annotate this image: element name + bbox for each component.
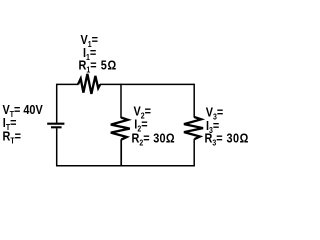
wire left vertical lower	[56, 128, 58, 166]
svg-text:RT=: RT=	[3, 130, 22, 146]
svg-text:R1= 5Ω: R1= 5Ω	[79, 59, 117, 75]
wire right vertical lower	[193, 139, 195, 166]
resistor R2	[111, 118, 130, 140]
wire right vertical upper	[193, 84, 195, 118]
wire top-left segment	[57, 83, 78, 85]
battery VT long plate	[47, 123, 64, 125]
wire bottom	[56, 165, 195, 167]
svg-text:R2= 30Ω: R2= 30Ω	[132, 132, 175, 148]
wire middle branch upper	[120, 84, 122, 118]
svg-text:VT= 40V: VT= 40V	[3, 103, 43, 119]
wire top-right segment	[100, 83, 194, 85]
battery VT short plate	[51, 126, 62, 128]
svg-text:R3= 30Ω: R3= 30Ω	[205, 132, 249, 148]
wire middle branch lower	[120, 139, 122, 166]
resistor R3	[184, 117, 203, 139]
resistor R1	[78, 74, 100, 94]
wire left vertical upper	[56, 84, 58, 123]
